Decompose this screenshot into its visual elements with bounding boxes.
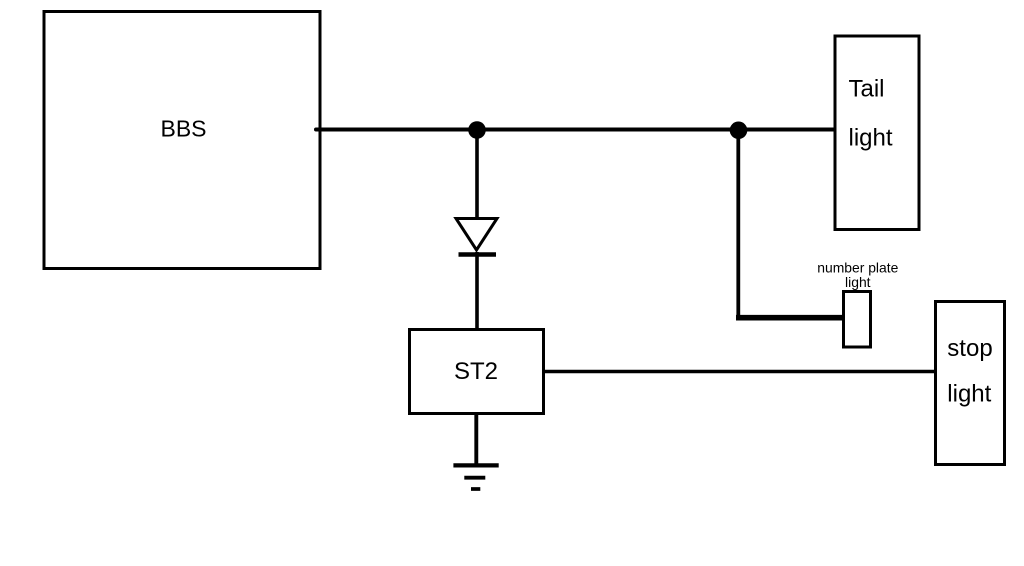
block ST2 [410, 330, 544, 414]
wire diode to ST2 [475, 252, 479, 329]
block stop light [936, 302, 1005, 465]
block BBS [44, 12, 320, 269]
svg-text:light: light [845, 274, 871, 290]
wire thick to number plate light [736, 315, 843, 321]
ground [453, 465, 498, 489]
diode D1 [456, 219, 497, 255]
wire ST2 to ground [474, 414, 478, 466]
wire junction 2 down [736, 130, 740, 318]
wire junction 1 to diode [475, 130, 479, 219]
wire ST2 to stop light [545, 370, 936, 374]
svg-text:ST2: ST2 [454, 358, 498, 385]
node junction 2 [730, 122, 748, 140]
block number plate light [817, 260, 898, 348]
node junction 1 [468, 121, 486, 139]
block Tail light [835, 36, 919, 230]
svg-text:BBS: BBS [160, 116, 206, 142]
svg-text:light: light [849, 124, 893, 151]
svg-text:stop: stop [947, 335, 992, 362]
wire BBS to Tail light [316, 128, 835, 132]
svg-text:light: light [947, 380, 991, 407]
svg-text:Tail: Tail [849, 76, 885, 103]
